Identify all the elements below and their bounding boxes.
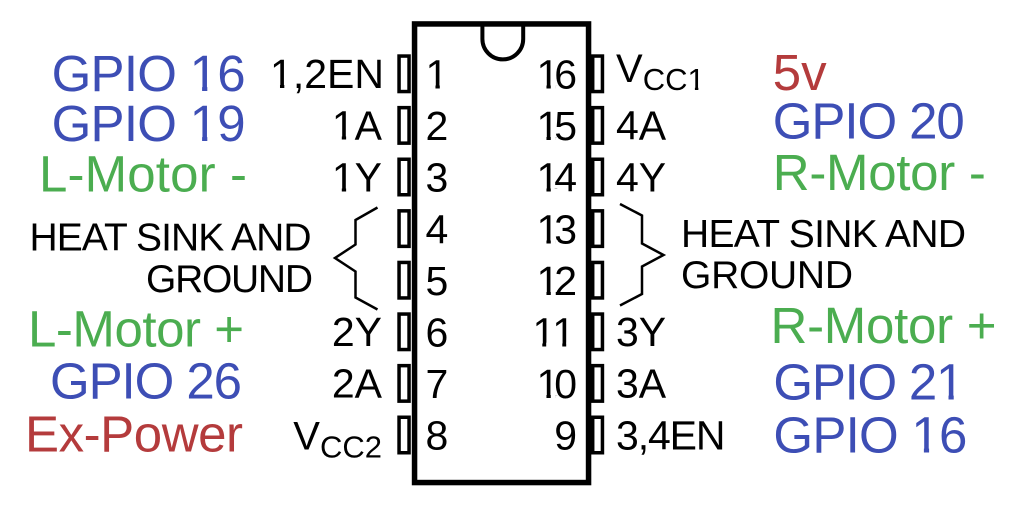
svg-text:1A: 1A (332, 103, 383, 149)
svg-text:4: 4 (426, 206, 449, 252)
pin 13 (593, 211, 603, 247)
svg-text:3A: 3A (616, 361, 667, 407)
svg-text:15: 15 (537, 103, 578, 149)
pin 16 (593, 56, 603, 92)
svg-text:1Y: 1Y (332, 154, 382, 200)
svg-text:4Y: 4Y (616, 154, 666, 200)
pin 11 (593, 314, 603, 350)
pin 7 (399, 366, 409, 402)
svg-text:GPIO 16: GPIO 16 (52, 45, 246, 102)
svg-text:16: 16 (537, 52, 578, 98)
svg-text:R-Motor +: R-Motor + (771, 297, 997, 354)
svg-text:6: 6 (426, 310, 449, 356)
pin 4 (399, 211, 409, 247)
svg-text:L-Motor -: L-Motor - (39, 145, 247, 202)
svg-text:5: 5 (426, 258, 449, 304)
svg-text:GROUND: GROUND (681, 254, 853, 297)
svg-text:R-Motor -: R-Motor - (773, 144, 986, 201)
pin 8 (399, 417, 409, 453)
svg-text:9: 9 (554, 413, 577, 459)
svg-text:1,2EN: 1,2EN (270, 51, 384, 97)
svg-text:2Y: 2Y (332, 309, 382, 355)
svg-text:GROUND: GROUND (146, 258, 313, 301)
pin 12 (593, 262, 603, 298)
IC U1: L293D motor driver, DIP-16 package body (415, 24, 589, 483)
glyph corrections: mask the foot serif of each "1" digit (reference font has serif-less 1) (428, 85, 436, 90)
svg-text:3,4EN: 3,4EN (616, 412, 726, 458)
pin 15 (593, 108, 603, 143)
pin 10 (593, 366, 603, 402)
svg-text:GPIO 26: GPIO 26 (50, 353, 242, 410)
svg-text:GPIO 19: GPIO 19 (52, 95, 246, 152)
svg-text:HEAT SINK AND: HEAT SINK AND (681, 213, 966, 256)
pin 5 (399, 262, 409, 298)
svg-text:8: 8 (426, 413, 449, 459)
svg-text:GPIO 21: GPIO 21 (773, 353, 964, 410)
svg-text:7: 7 (426, 361, 449, 407)
svg-text:GPIO 16: GPIO 16 (773, 406, 967, 463)
brace right (pins 13-12 heat sink) (620, 204, 664, 306)
svg-text:HEAT SINK AND: HEAT SINK AND (30, 216, 312, 259)
pin 14 (593, 159, 603, 195)
svg-text:L-Motor +: L-Motor + (28, 300, 244, 357)
svg-text:4A: 4A (616, 103, 667, 149)
svg-text:10: 10 (537, 361, 578, 407)
pin-1 notch (482, 26, 523, 59)
pin 2 (399, 108, 409, 143)
svg-text:3: 3 (426, 155, 449, 201)
svg-text:12: 12 (537, 258, 578, 304)
pin 1 (399, 56, 409, 92)
pin 3 (399, 159, 409, 195)
svg-text:13: 13 (537, 206, 578, 252)
brace left (pins 4-5 heat sink) (335, 208, 378, 310)
svg-text:1: 1 (426, 52, 449, 98)
svg-text:2A: 2A (332, 361, 383, 407)
svg-text:14: 14 (537, 155, 578, 201)
svg-text:2: 2 (426, 103, 449, 149)
pin 9 (593, 417, 603, 453)
svg-text:GPIO 20: GPIO 20 (773, 93, 965, 150)
pin 6 (399, 314, 409, 350)
svg-text:3Y: 3Y (616, 309, 666, 355)
svg-text:Ex-Power: Ex-Power (25, 406, 243, 463)
